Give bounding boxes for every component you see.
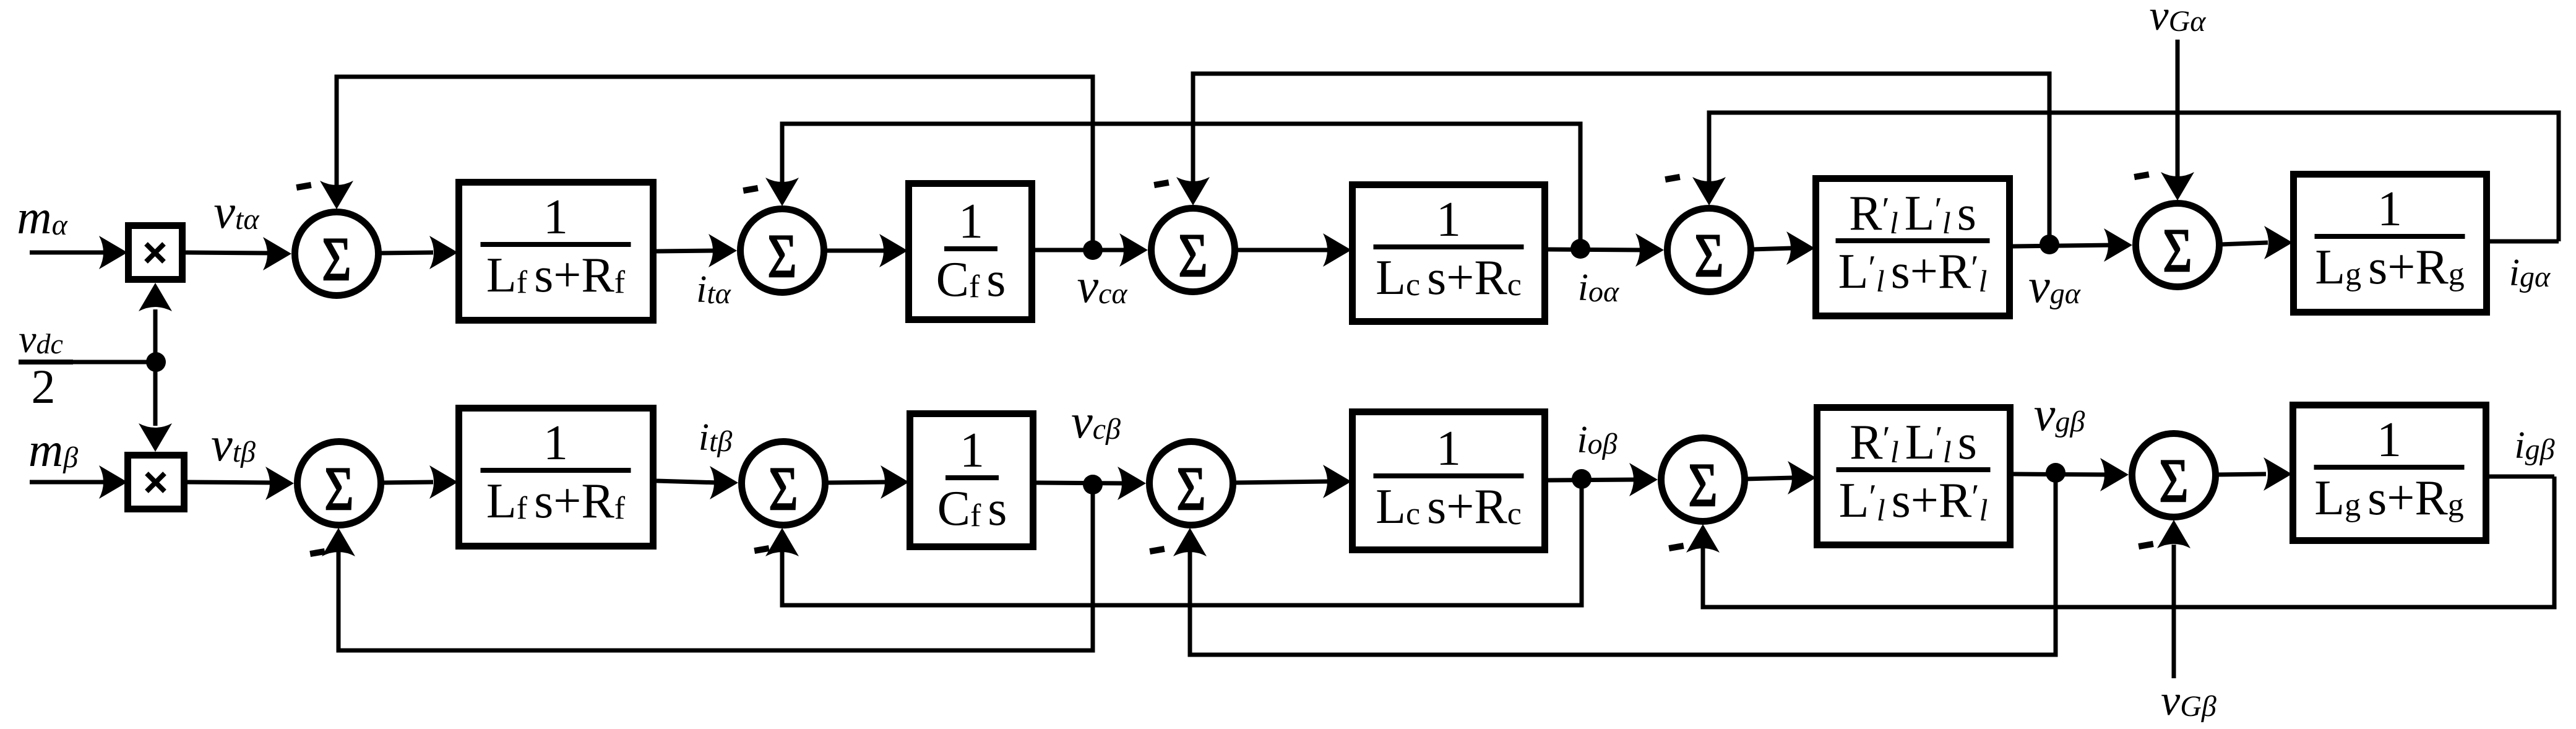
node v_c_alpha [1083, 240, 1103, 260]
node i_o_beta [1572, 469, 1592, 489]
feedback wire i_o_beta to S2b [782, 479, 1582, 605]
label i_o_alpha [1578, 267, 1619, 309]
arrowhead into multiplier M2 [99, 465, 127, 499]
label v_g_alpha [2028, 259, 2081, 313]
svg-text:Lc s+Rc: Lc s+Rc [1376, 480, 1522, 534]
block B1b 1/(Lf s+Rf) [459, 408, 653, 546]
label v_c_beta [1071, 394, 1121, 448]
arrowhead into multiplier M1 [99, 236, 127, 269]
arrowhead into S1 top [320, 181, 353, 209]
svg-text:Σ: Σ [325, 454, 354, 523]
wire B4b to sum S5b via node vgb [2014, 474, 2108, 475]
svg-text:Σ: Σ [1177, 454, 1206, 523]
svg-text:Σ: Σ [1695, 221, 1724, 290]
wire node up to multiplier M1 [153, 309, 158, 362]
multiplier M1 (x) [129, 226, 183, 280]
feedback wire i_g_beta to S4b [1703, 477, 2554, 607]
svg-text:1: 1 [543, 416, 568, 470]
minus sign at S1 [296, 182, 311, 191]
svg-text:L′l s+R′l: L′l s+R′l [1838, 244, 1988, 299]
wire v_dc/2 to node [73, 360, 156, 364]
minus sign at S2b [754, 545, 769, 554]
block B2b 1/(Cf s) [910, 414, 1033, 547]
wire B3 to sum S4 via node ioa [1548, 249, 1643, 250]
feedback wire v_c_alpha to S1 [337, 77, 1093, 250]
multiplier M2 (x) [128, 455, 184, 509]
arrowhead into block B2b [881, 465, 909, 499]
sum S2b [742, 442, 825, 525]
arrowhead into S3 top [1176, 177, 1210, 205]
minus sign at S5 [2134, 171, 2149, 180]
arrowhead into S2b bottom [765, 528, 799, 556]
wire B1 to sum S2 [657, 251, 718, 251]
wire S1 to block B1 [379, 252, 433, 253]
wire S3b to block B3b [1234, 481, 1327, 483]
arrowhead into S5b bottom [2157, 520, 2190, 548]
block B2 1/(Cf s) [909, 184, 1032, 320]
node v_g_alpha [2040, 235, 2059, 254]
input wire v_G_alpha to S5 [2176, 40, 2180, 177]
arrowhead into sum S4 [1635, 233, 1664, 267]
block B5b 1/(Lg s+Rg) [2293, 405, 2486, 541]
arrowhead into sum S3 [1119, 233, 1148, 267]
svg-text:Σ: Σ [769, 454, 798, 523]
wire B5b output to corner [2489, 475, 2554, 479]
label v_t_alpha [213, 184, 259, 238]
sum S2 [741, 209, 824, 293]
sum S5 [2136, 204, 2220, 287]
wire S4 to block B4 [1752, 248, 1791, 249]
minus sign at S3 [1153, 179, 1169, 188]
sum S3 [1152, 209, 1235, 292]
arrowhead into sum S5b [2100, 458, 2129, 491]
svg-text:1: 1 [543, 190, 568, 244]
arrowhead into S2 top [765, 178, 799, 206]
svg-text:Σ: Σ [322, 225, 351, 293]
arrowhead into sum S2b [710, 466, 738, 499]
arrowhead into block B4b [1788, 461, 1816, 494]
svg-text:Σ: Σ [1179, 221, 1208, 290]
label i_t_beta [699, 416, 733, 459]
wire S5 to block B5 [2220, 243, 2268, 244]
sum S1b [298, 442, 381, 525]
arrowhead into block B5b [2264, 457, 2292, 491]
arrowhead into block B1 [429, 236, 458, 269]
svg-text:R′l L′l s: R′l L′l s [1849, 186, 1976, 241]
svg-text:Lf s+Rf: Lf s+Rf [486, 474, 626, 528]
svg-text:1: 1 [1436, 192, 1461, 247]
label i_t_alpha [696, 269, 731, 311]
sum S4 [1668, 209, 1751, 292]
arrowhead into S4 top [1692, 177, 1726, 205]
sum S4b [1661, 438, 1745, 522]
wire node down to multiplier M2 [153, 362, 158, 426]
block B4 R'l L'l s/(L'l s+R'l) [1816, 179, 2010, 316]
node v_c_beta [1083, 475, 1103, 494]
feedback wire i_g_alpha to S4 [1709, 113, 2559, 241]
svg-text:L′l s+R′l: L′l s+R′l [1839, 473, 1988, 528]
block B4b R'l L'l s/(L'l s+R'l) [1817, 408, 2010, 545]
minus sign at S4 [1665, 174, 1680, 183]
minus sign at S2 [743, 185, 758, 194]
label v_c_alpha [1077, 259, 1127, 313]
arrowhead into sum S4b [1629, 463, 1658, 496]
svg-text:1: 1 [1436, 421, 1461, 476]
arrowhead into sum S1 [263, 237, 291, 270]
arrowhead into S1b bottom [322, 528, 355, 556]
feedback wire i_o_alpha to S2 [782, 124, 1580, 249]
wire B5 output to corner [2490, 239, 2559, 244]
svg-text:Lg s+Rg: Lg s+Rg [2315, 240, 2464, 295]
node v_g_beta [2046, 463, 2066, 483]
svg-text:1: 1 [960, 423, 984, 478]
svg-text:1: 1 [2377, 413, 2402, 467]
svg-text:1: 1 [2377, 182, 2402, 236]
svg-text:Σ: Σ [1689, 451, 1718, 519]
svg-text:Σ: Σ [768, 222, 797, 290]
arrowhead into sum S5 [2104, 228, 2132, 262]
wire B4 to sum S5 via node vga [2013, 245, 2113, 246]
arrowhead into M1 bottom [139, 283, 172, 311]
sum S1 [295, 212, 379, 296]
svg-text:Lf s+Rf: Lf s+Rf [486, 248, 626, 303]
minus sign at S1b [309, 548, 325, 557]
sum S5b [2132, 434, 2216, 517]
label v_G_alpha [2150, 0, 2207, 40]
minus sign at S5b [2138, 541, 2153, 550]
arrowhead into S4b bottom [1686, 524, 1720, 553]
block B1 1/(Lf s+Rf) [459, 183, 653, 321]
wire B1b to sum S2b [657, 481, 719, 483]
wire multiplier M1 to sum S1 [186, 252, 272, 253]
arrowhead into block B1b [429, 465, 458, 499]
feedback wire v_g_beta to S3b [1190, 473, 2056, 655]
arrowhead into sum S1b [265, 467, 294, 500]
svg-text:Σ: Σ [2163, 216, 2192, 285]
label i_o_beta [1577, 419, 1617, 461]
label i_g_beta [2514, 425, 2554, 467]
input wire v_G_beta to S5b [2172, 545, 2176, 678]
arrowhead into S3b bottom [1173, 528, 1207, 556]
wire S5b to block B5b [2216, 474, 2266, 475]
block B3b 1/(Lc s+Rc) [1353, 412, 1545, 550]
node i_o_alpha [1570, 239, 1590, 259]
arrowhead into sum S2 [709, 234, 737, 267]
feedback wire v_g_alpha to S3 [1193, 74, 2049, 244]
arrowhead into block B4 [1786, 231, 1815, 265]
svg-text:Lg s+Rg: Lg s+Rg [2314, 471, 2463, 525]
label i_g_alpha [2509, 252, 2551, 294]
svg-text:1: 1 [958, 194, 983, 249]
arrowhead into block B5 [2264, 226, 2293, 259]
wire S3 to block B3 [1236, 248, 1327, 252]
label v_t_beta [211, 417, 256, 471]
feedback wire v_c_beta to S1b [338, 485, 1093, 650]
wire m_beta to multiplier M2 [30, 480, 108, 485]
arrowhead into S5 top [2161, 172, 2194, 201]
svg-text:Lc s+Rc: Lc s+Rc [1376, 251, 1522, 305]
label v_dc over 2 [19, 317, 73, 413]
wire B3b to sum S4b via node iob [1548, 480, 1637, 480]
block B5 1/(Lg s+Rg) [2294, 175, 2487, 313]
wire S1b to block B1b [382, 482, 433, 483]
wire m_alpha to multiplier [30, 251, 108, 255]
svg-text:2: 2 [32, 360, 56, 413]
minus sign at S3b [1149, 546, 1165, 554]
svg-text:R′l L′l s: R′l L′l s [1850, 415, 1977, 470]
minus sign at S4b [1668, 543, 1684, 551]
arrowhead into sum S3b [1118, 467, 1146, 500]
arrowhead into block B3 [1323, 233, 1351, 267]
arrowhead into M2 top [139, 423, 172, 452]
label m_beta input [28, 423, 78, 477]
arrowhead into block B3b [1323, 465, 1351, 498]
wire B2 to sum S3 via node vca [1035, 248, 1129, 252]
node v_dc/2 [146, 352, 166, 372]
label v_g_beta [2034, 387, 2085, 441]
wire S2b to block B2b [826, 482, 886, 483]
label v_G_beta [2161, 677, 2216, 725]
wire S4b to block B4b [1746, 478, 1793, 479]
svg-text:Σ: Σ [2160, 446, 2189, 515]
label m_alpha input [17, 190, 67, 244]
block B3 1/(Lc s+Rc) [1353, 185, 1545, 322]
wire B2b to sum S3b via node vcb [1036, 483, 1128, 483]
sum S3b [1150, 442, 1233, 525]
wire multiplier M2 to sum S1b [187, 482, 275, 483]
wire S2 to block B2 [825, 249, 885, 253]
svg-text:vGα: vGα [2150, 0, 2207, 40]
arrowhead into block B2 [879, 234, 908, 267]
